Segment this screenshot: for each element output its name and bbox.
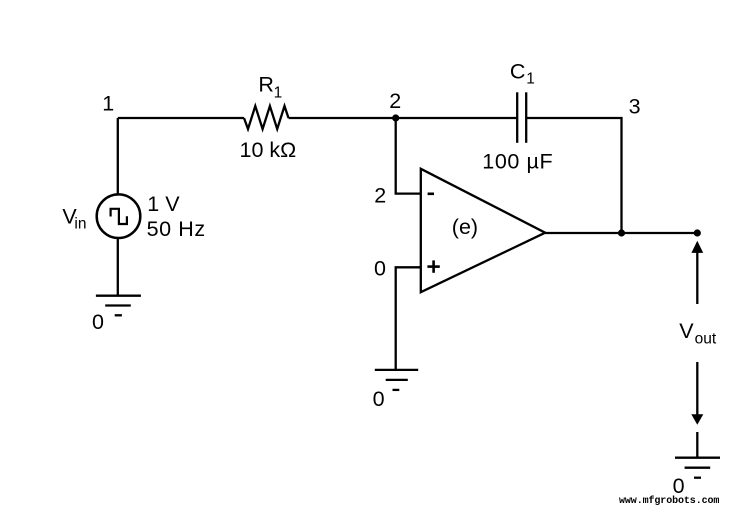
- wire node2 to inverting input: [396, 118, 421, 194]
- node 2 junction dot: [392, 114, 399, 121]
- label 1 V: [147, 192, 180, 216]
- node 0 label (output ground): [673, 474, 685, 498]
- node 3 label: [629, 95, 641, 119]
- node 2 label: [389, 89, 401, 113]
- watermark: [619, 495, 719, 507]
- wire non-inverting input: [396, 267, 421, 370]
- minus sign: [428, 193, 434, 196]
- svg-text:0: 0: [92, 310, 104, 334]
- svg-text:V: V: [679, 319, 694, 343]
- label C1: [510, 60, 535, 88]
- svg-text:0: 0: [373, 387, 385, 411]
- label 0 (non-inverting input): [374, 257, 386, 281]
- label R1: [258, 73, 282, 102]
- capacitor C1: [517, 92, 526, 143]
- wire Vin to ground: [117, 238, 119, 296]
- node 1 label: [102, 92, 114, 116]
- label 10 kOhm: [240, 138, 297, 162]
- svg-text:R: R: [258, 73, 274, 97]
- op-amp U1: [421, 169, 545, 292]
- node 0 label (Vin ground): [92, 310, 104, 334]
- svg-text:1: 1: [526, 71, 535, 88]
- wire to output ground: [696, 432, 698, 458]
- svg-text:out: out: [695, 331, 717, 348]
- svg-text:100 µF: 100 µF: [482, 149, 553, 173]
- svg-text:10 kΩ: 10 kΩ: [240, 138, 297, 162]
- svg-text:in: in: [74, 215, 86, 232]
- label 2 (inverting input): [374, 184, 386, 208]
- label Vout: [679, 319, 717, 348]
- ground (Vin): [96, 296, 141, 316]
- svg-text:2: 2: [389, 89, 401, 113]
- wire R1 to node 2: [289, 117, 396, 119]
- ground (output): [675, 458, 720, 478]
- label Vin: [62, 205, 86, 233]
- svg-text:(e): (e): [452, 215, 478, 239]
- wire node1 to R1: [118, 117, 244, 119]
- wire C1 to node 3: [526, 118, 621, 233]
- ground (op-amp): [375, 370, 418, 390]
- svg-text:0: 0: [673, 474, 685, 498]
- label 100 uF: [482, 149, 553, 173]
- output wire: [545, 232, 697, 234]
- junction dot node 3: [618, 229, 625, 236]
- square-wave symbol: [111, 209, 127, 224]
- Vout up arrow: [691, 241, 703, 304]
- plus sign: [427, 260, 439, 272]
- svg-text:0: 0: [374, 257, 386, 281]
- wire node2 to C1: [396, 117, 518, 119]
- output node dot: [694, 229, 701, 236]
- label 50 Hz: [147, 217, 206, 241]
- svg-text:3: 3: [629, 95, 641, 119]
- wire node1 to Vin source: [117, 118, 119, 194]
- source Vin circle: [97, 194, 141, 238]
- svg-text:1 V: 1 V: [147, 192, 180, 216]
- svg-text:C: C: [510, 60, 526, 84]
- svg-text:www.mfgrobots.com: www.mfgrobots.com: [619, 495, 719, 507]
- resistor R1: [244, 106, 289, 129]
- Vout down arrow: [691, 362, 703, 425]
- node 0 label (op-amp ground): [373, 387, 385, 411]
- label (e): [452, 215, 478, 239]
- svg-text:50 Hz: 50 Hz: [147, 217, 206, 241]
- svg-text:1: 1: [102, 92, 114, 116]
- svg-text:1: 1: [274, 84, 283, 101]
- svg-text:2: 2: [374, 184, 386, 208]
